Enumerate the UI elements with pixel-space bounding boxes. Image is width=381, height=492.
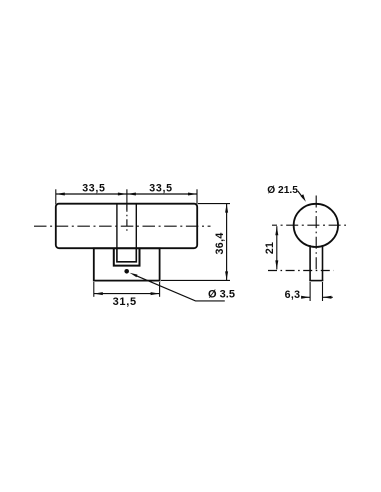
arrowhead 6,3 right (pointing left): [323, 296, 332, 299]
stem left edge: [309, 245, 311, 280]
arrowhead 21 bottom: [275, 260, 278, 269]
dimension line 33,5 + 33,5: [56, 193, 197, 195]
svg-text:21: 21: [264, 242, 276, 254]
cylinder body outline: [56, 204, 197, 249]
svg-text:31,5: 31,5: [113, 296, 137, 308]
arrowhead pair at middle witness: [118, 193, 127, 196]
dimension 6,3 left segment: [302, 296, 310, 298]
horizontal center line (front view): [272, 224, 346, 226]
arrowhead 31,5 right: [151, 292, 160, 295]
arrowhead 31,5 left: [94, 292, 103, 295]
witness 6,3 right: [322, 282, 324, 301]
arrowhead 36,4 bottom: [225, 271, 228, 280]
witness 6,3 left: [309, 282, 311, 301]
dimension 21 vertical line: [276, 226, 278, 269]
inner cup below cam: [117, 248, 136, 261]
outer cup: [114, 248, 140, 265]
witness line right: [196, 189, 198, 204]
arrowhead leader Ø 21.5: [301, 194, 306, 202]
witness 31,5 left: [93, 282, 95, 297]
witness 36,4 bottom (foot bottom extension): [161, 279, 230, 281]
svg-text:Ø 21.5: Ø 21.5: [267, 185, 298, 196]
arrowhead 6,3 left (pointing right): [301, 296, 310, 299]
arrowhead 21 top: [275, 226, 278, 235]
svg-text:33,5: 33,5: [82, 183, 105, 195]
dimension 36,4 vertical line: [226, 204, 228, 281]
arrowhead right 33,5 right end: [188, 193, 197, 196]
cam column right line: [135, 204, 137, 248]
dimension line 31,5: [94, 293, 160, 295]
cam column left line: [116, 204, 118, 248]
dimension 6,3 right segment: [323, 296, 333, 298]
witness 36,4 top: [198, 203, 230, 205]
witness 31,5 right: [159, 282, 161, 297]
vertical center line (cam axis, left view): [126, 205, 128, 234]
vertical center line (front view): [315, 196, 317, 272]
svg-text:Ø 3.5: Ø 3.5: [208, 289, 235, 301]
svg-text:33,5: 33,5: [149, 182, 172, 194]
leader line to hole (Ø 3.5): [135, 275, 225, 301]
stem bottom edge: [309, 280, 323, 282]
arrowhead left 33,5 left end: [56, 193, 65, 196]
front view circle Ø 21.5: [294, 204, 338, 247]
witness line left: [55, 189, 57, 204]
leader Ø 21.5: [298, 191, 304, 199]
svg-text:36,4: 36,4: [214, 232, 226, 254]
leader arrowhead at hole: [130, 273, 138, 277]
horizontal center line (left view): [34, 225, 211, 227]
svg-text:6,3: 6,3: [285, 289, 301, 301]
fixing hole dot: [124, 269, 129, 274]
cam axis center line (front view): [268, 270, 334, 272]
stem right edge: [322, 245, 324, 280]
witness line middle: [126, 189, 128, 210]
foot plate: [94, 248, 160, 280]
arrowhead 36,4 top: [225, 204, 228, 213]
